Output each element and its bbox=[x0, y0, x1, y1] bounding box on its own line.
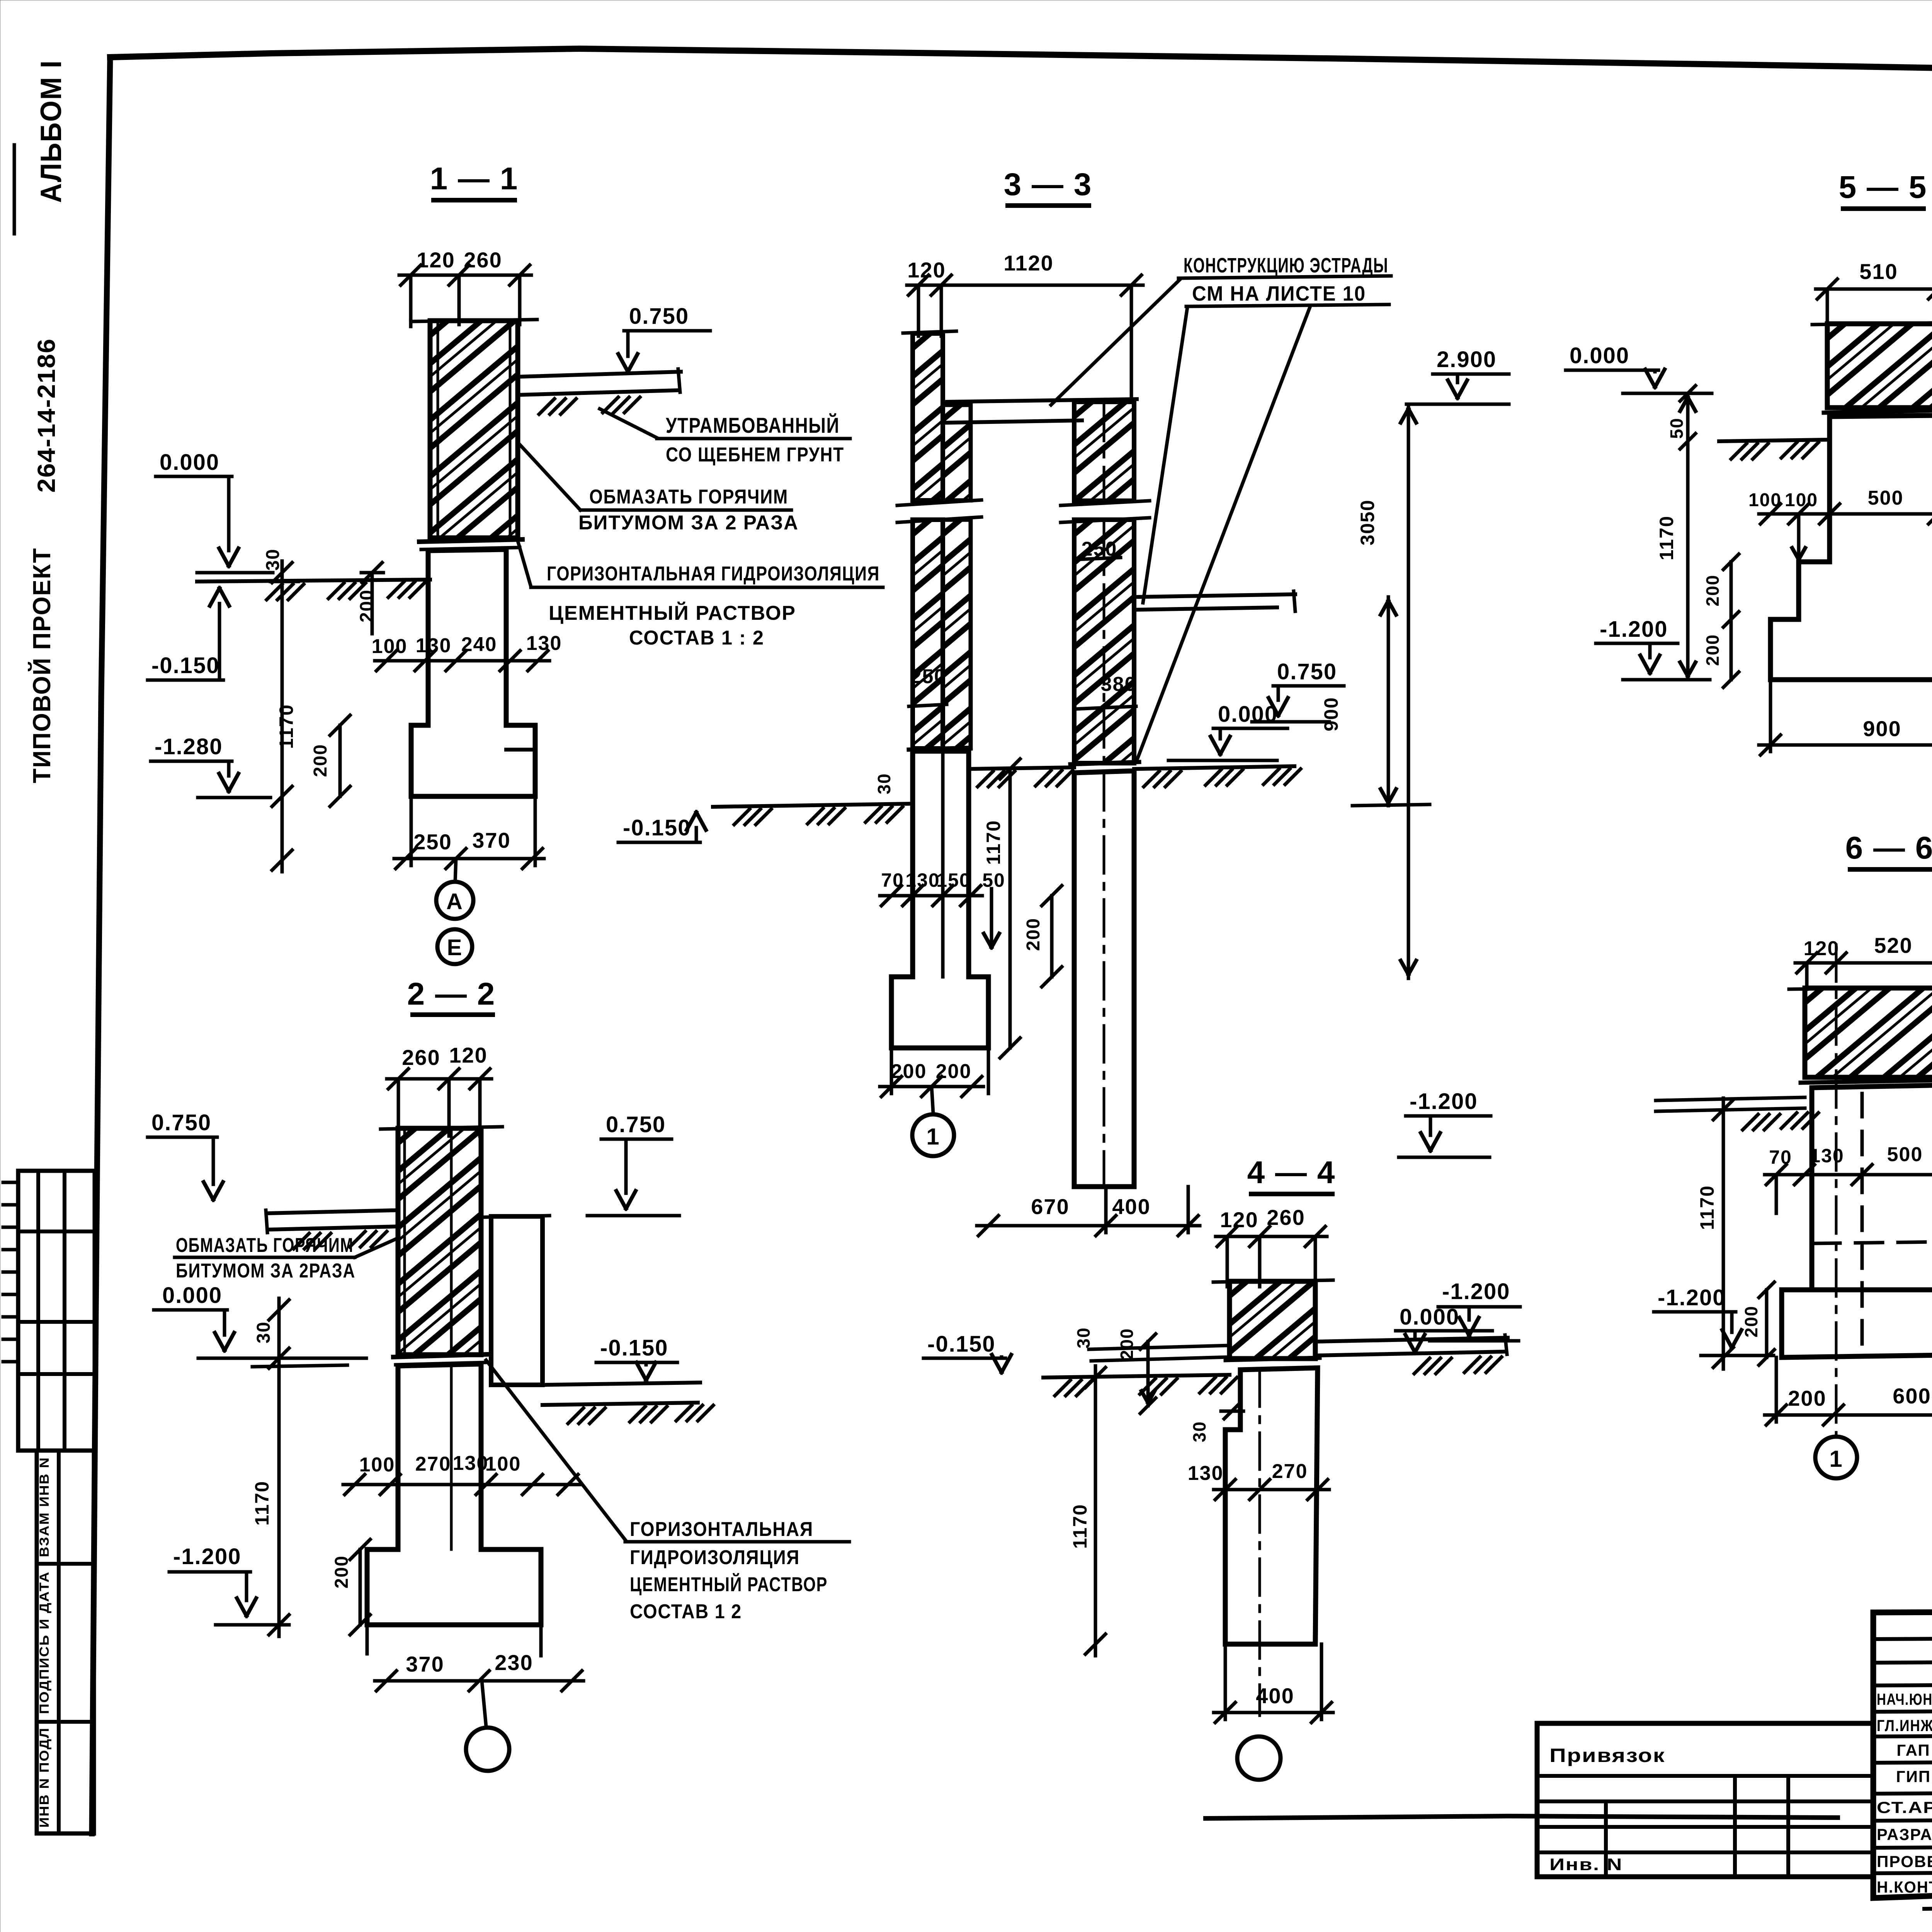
svg-text:4 — 4: 4 — 4 bbox=[1247, 1155, 1336, 1190]
svg-text:1170: 1170 bbox=[1069, 1504, 1091, 1549]
svg-text:120: 120 bbox=[417, 248, 455, 272]
section 5-5 ground lines bbox=[1719, 440, 1827, 441]
svg-text:264-14-2186: 264-14-2186 bbox=[32, 338, 60, 493]
section 3-3 floor slab right 0.750 bbox=[1134, 594, 1295, 597]
section 1-1 note: утрамбованный со щебнем грунт bbox=[600, 409, 657, 438]
svg-text:-1.200: -1.200 bbox=[1658, 1285, 1726, 1310]
svg-text:120: 120 bbox=[449, 1043, 487, 1067]
sheet bottom border bbox=[1206, 1816, 1838, 1818]
section 1-1 ground line left bbox=[197, 580, 430, 582]
svg-text:СТ.АРХ: СТ.АРХ bbox=[1877, 1798, 1932, 1816]
section 2-2 floor slab left bbox=[267, 1210, 398, 1213]
section 1-1 hydro joint bbox=[419, 539, 522, 542]
svg-text:Привязок: Привязок bbox=[1549, 1745, 1665, 1766]
section 1-1 axis bubble A bbox=[436, 882, 473, 919]
svg-text:НАЧ.ЮНИ7: НАЧ.ЮНИ7 bbox=[1877, 1690, 1932, 1708]
section 1-1 note: горизонтальная гидроизоляция bbox=[518, 541, 531, 587]
svg-text:30: 30 bbox=[263, 548, 283, 570]
svg-text:БИТУМОМ ЗА 2РАЗА: БИТУМОМ ЗА 2РАЗА bbox=[176, 1260, 355, 1282]
section 4-4 floor slab right bbox=[1315, 1338, 1508, 1342]
section 2-2 pilaster column right bbox=[491, 1216, 543, 1385]
svg-text:130: 130 bbox=[526, 632, 562, 655]
svg-text:1 — 1: 1 — 1 bbox=[430, 161, 519, 196]
svg-text:РАЗРАБ.: РАЗРАБ. bbox=[1877, 1825, 1932, 1844]
section 2-2 axis bubble bbox=[466, 1728, 509, 1771]
section 3-3 platform slab bbox=[944, 399, 1137, 402]
section 2-2 note: горизонтальная гидроизоляция bbox=[486, 1360, 625, 1540]
section 3-3 ground lines bbox=[969, 767, 1074, 769]
svg-text:0.750: 0.750 bbox=[1277, 659, 1337, 684]
svg-text:380: 380 bbox=[1101, 673, 1137, 696]
svg-text:СОСТАВ 1 : 2: СОСТАВ 1 : 2 bbox=[629, 627, 764, 649]
svg-text:270: 270 bbox=[415, 1453, 451, 1475]
section 4-4 axis line bbox=[1259, 1236, 1261, 1281]
svg-text:БИТУМОМ ЗА 2 РАЗА: БИТУМОМ ЗА 2 РАЗА bbox=[578, 512, 799, 534]
svg-text:670: 670 bbox=[1031, 1194, 1069, 1219]
svg-text:0.750: 0.750 bbox=[606, 1112, 666, 1137]
svg-text:200: 200 bbox=[1788, 1386, 1826, 1410]
svg-text:400: 400 bbox=[1112, 1194, 1150, 1219]
section 5-5 hydro joint bbox=[1824, 410, 1932, 413]
svg-text:0.750: 0.750 bbox=[629, 304, 689, 329]
section 3-3 axis line right pier bbox=[1103, 404, 1105, 498]
section 5-5 foundation stepped pier bbox=[1770, 415, 1932, 680]
svg-text:520: 520 bbox=[1874, 933, 1912, 957]
svg-text:Инв. N: Инв. N bbox=[1549, 1855, 1623, 1874]
svg-text:100: 100 bbox=[372, 635, 408, 658]
svg-text:1170: 1170 bbox=[1656, 515, 1677, 560]
section 6-6 floor slab left bbox=[1656, 1097, 1805, 1100]
title block left rows bbox=[1873, 1684, 1932, 1685]
svg-text:ГОРИЗОНТАЛЬНАЯ ГИДРОИЗОЛЯЦИЯ: ГОРИЗОНТАЛЬНАЯ ГИДРОИЗОЛЯЦИЯ bbox=[547, 563, 880, 585]
svg-text:1170: 1170 bbox=[276, 704, 297, 749]
svg-text:30: 30 bbox=[874, 773, 894, 794]
section 6-6 footing bbox=[1782, 1290, 1932, 1357]
section 6-6 axis bubble 1 bbox=[1815, 1437, 1857, 1478]
section 2-2 axis line bbox=[482, 1681, 486, 1726]
section 2-2 hydro joint bbox=[393, 1354, 488, 1357]
svg-text:ТИПОВОЙ ПРОЕКТ: ТИПОВОЙ ПРОЕКТ bbox=[27, 548, 56, 783]
svg-text:250: 250 bbox=[413, 830, 452, 854]
svg-text:-1.280: -1.280 bbox=[155, 734, 223, 759]
svg-text:120: 120 bbox=[1804, 937, 1840, 960]
svg-text:6 — 6: 6 — 6 bbox=[1845, 830, 1932, 866]
svg-text:-1.200: -1.200 bbox=[173, 1544, 241, 1569]
svg-text:200: 200 bbox=[1117, 1328, 1137, 1360]
section 6-6 hydro joint bbox=[1801, 1080, 1932, 1083]
svg-text:ПОДПИСЬ И ДАТА: ПОДПИСЬ И ДАТА bbox=[37, 1571, 52, 1714]
svg-text:АЛЬБОМ I: АЛЬБОМ I bbox=[35, 60, 68, 203]
svg-text:260: 260 bbox=[402, 1045, 440, 1070]
section 2-2 lower floor right bbox=[543, 1383, 700, 1385]
svg-text:-1.200: -1.200 bbox=[1442, 1279, 1510, 1304]
margin tick line bbox=[13, 145, 16, 234]
svg-text:ГЛ.ИНЖ.М: ГЛ.ИНЖ.М bbox=[1877, 1716, 1932, 1735]
svg-text:200: 200 bbox=[357, 589, 377, 622]
svg-text:1: 1 bbox=[1829, 1446, 1843, 1472]
svg-text:370: 370 bbox=[406, 1652, 444, 1676]
section 3-3 left wall hydro joint bbox=[909, 748, 971, 750]
svg-text:Н.КОНТР: Н.КОНТР bbox=[1877, 1878, 1932, 1896]
svg-text:КОНСТРУКЦИЮ ЭСТРАДЫ: КОНСТРУКЦИЮ ЭСТРАДЫ bbox=[1184, 254, 1388, 277]
svg-text:370: 370 bbox=[472, 828, 510, 852]
svg-text:250: 250 bbox=[910, 665, 946, 688]
svg-text:200: 200 bbox=[1702, 575, 1723, 607]
section 3-3 wall break marks bbox=[897, 500, 981, 505]
svg-text:0.750: 0.750 bbox=[151, 1110, 211, 1135]
svg-text:Е: Е bbox=[447, 935, 463, 960]
svg-text:510: 510 bbox=[1859, 259, 1898, 284]
svg-text:3 — 3: 3 — 3 bbox=[1004, 167, 1092, 202]
svg-text:270: 270 bbox=[1272, 1460, 1308, 1483]
section 4-4 axis bubble bbox=[1237, 1736, 1281, 1780]
svg-text:1170: 1170 bbox=[983, 820, 1004, 865]
svg-text:0.000: 0.000 bbox=[1570, 343, 1629, 368]
privyazok box bbox=[1537, 1723, 1873, 1877]
svg-text:200: 200 bbox=[1702, 634, 1723, 666]
svg-text:200: 200 bbox=[1023, 918, 1044, 951]
svg-text:3050: 3050 bbox=[1357, 499, 1378, 545]
svg-text:0.000: 0.000 bbox=[160, 450, 219, 475]
section 3-3 right pier bbox=[1074, 771, 1134, 1187]
svg-text:СОСТАВ 1 2: СОСТАВ 1 2 bbox=[630, 1600, 742, 1623]
svg-text:ОБМАЗАТЬ ГОРЯЧИМ: ОБМАЗАТЬ ГОРЯЧИМ bbox=[589, 486, 788, 508]
section 3-3 left pier bbox=[891, 751, 988, 1048]
svg-text:130: 130 bbox=[453, 1452, 489, 1475]
section 3-3 axis bubble 1 bbox=[912, 1114, 954, 1156]
svg-text:-0.150: -0.150 bbox=[927, 1332, 995, 1357]
section 4-4 floor slab left bbox=[1089, 1345, 1230, 1349]
section 6-6 pier bbox=[1812, 1085, 1932, 1290]
svg-text:УТРАМБОВАННЫЙ: УТРАМБОВАННЫЙ bbox=[666, 413, 840, 437]
section 1-1 note: обмазать горячим битумом за 2 раза bbox=[518, 442, 580, 510]
title block frame bbox=[1873, 1610, 1932, 1898]
svg-text:1: 1 bbox=[926, 1124, 940, 1150]
section 3-3 ground line left bbox=[713, 804, 913, 807]
left sidebar lower stamp table bbox=[37, 1451, 94, 1833]
svg-text:ВЗАМ ИНВ N: ВЗАМ ИНВ N bbox=[37, 1457, 52, 1557]
svg-text:5 — 5: 5 — 5 bbox=[1839, 170, 1927, 205]
section 6-6 axis line bbox=[1835, 945, 1838, 1435]
section 2-2 foundation pier bbox=[367, 1364, 541, 1625]
svg-text:СО ЩЕБНЕМ ГРУНТ: СО ЩЕБНЕМ ГРУНТ bbox=[666, 444, 844, 466]
svg-text:30: 30 bbox=[253, 1321, 274, 1343]
section 3-3 axis line to bubble bbox=[932, 1087, 933, 1113]
svg-text:30: 30 bbox=[1073, 1327, 1094, 1348]
svg-text:ГАП: ГАП bbox=[1896, 1741, 1930, 1759]
section 3-3 right wall hydro joint bbox=[1070, 762, 1139, 764]
svg-text:-1.200: -1.200 bbox=[1600, 617, 1668, 642]
left sidebar upper grid bbox=[18, 1171, 95, 1451]
svg-text:900: 900 bbox=[1320, 697, 1342, 731]
svg-text:А: А bbox=[446, 889, 463, 914]
section 1-1 foundation pier bbox=[411, 549, 535, 796]
svg-text:2.900: 2.900 bbox=[1437, 347, 1497, 372]
svg-text:120: 120 bbox=[1220, 1207, 1258, 1232]
svg-text:ГОРИЗОНТАЛЬНАЯ: ГОРИЗОНТАЛЬНАЯ bbox=[630, 1518, 813, 1541]
section 4-4 ground line left bbox=[1043, 1375, 1230, 1378]
svg-text:2 — 2: 2 — 2 bbox=[407, 976, 496, 1012]
svg-text:50: 50 bbox=[982, 869, 1005, 891]
svg-text:100: 100 bbox=[1785, 490, 1818, 510]
svg-text:-0.150: -0.150 bbox=[623, 815, 691, 840]
sheet top border bbox=[110, 49, 1932, 81]
sheet left border bbox=[92, 57, 110, 1833]
svg-text:СМ НА ЛИСТЕ 10: СМ НА ЛИСТЕ 10 bbox=[1192, 282, 1366, 305]
svg-text:600: 600 bbox=[1893, 1384, 1931, 1408]
svg-text:200: 200 bbox=[310, 744, 331, 777]
svg-text:ПРОВЕР: ПРОВЕР bbox=[1877, 1852, 1932, 1871]
svg-text:50: 50 bbox=[1667, 417, 1687, 439]
svg-text:-0.150: -0.150 bbox=[600, 1335, 668, 1361]
svg-text:ЦЕМЕНТНЫЙ РАСТВОР: ЦЕМЕНТНЫЙ РАСТВОР bbox=[630, 1573, 828, 1596]
svg-text:260: 260 bbox=[1267, 1205, 1305, 1230]
section 1-1 axis line bbox=[455, 859, 456, 882]
svg-text:900: 900 bbox=[1863, 716, 1901, 741]
svg-text:-0.150: -0.150 bbox=[151, 653, 219, 678]
svg-text:ЦЕМЕНТНЫЙ РАСТВОР: ЦЕМЕНТНЫЙ РАСТВОР bbox=[549, 602, 796, 624]
svg-text:ГИП: ГИП bbox=[1896, 1767, 1931, 1786]
svg-text:400: 400 bbox=[1256, 1684, 1294, 1708]
svg-text:1170: 1170 bbox=[1696, 1185, 1718, 1230]
svg-text:0.000: 0.000 bbox=[1218, 702, 1278, 727]
svg-text:500: 500 bbox=[1887, 1143, 1923, 1166]
svg-text:150: 150 bbox=[936, 869, 971, 891]
svg-text:-1.200: -1.200 bbox=[1410, 1089, 1478, 1114]
section 4-4 foundation pier bbox=[1225, 1368, 1318, 1644]
svg-text:500: 500 bbox=[1868, 487, 1904, 509]
svg-text:70: 70 bbox=[1769, 1146, 1792, 1168]
svg-text:30: 30 bbox=[1189, 1421, 1209, 1442]
svg-text:130: 130 bbox=[1188, 1462, 1224, 1485]
svg-text:260: 260 bbox=[464, 248, 502, 272]
svg-text:ОБМАЗАТЬ ГОРЯЧИМ: ОБМАЗАТЬ ГОРЯЧИМ bbox=[176, 1234, 354, 1257]
section 1-1 axis bubble Е bbox=[437, 929, 472, 964]
svg-text:1120: 1120 bbox=[1003, 251, 1054, 275]
svg-text:200: 200 bbox=[1741, 1306, 1761, 1338]
svg-text:230: 230 bbox=[495, 1650, 533, 1675]
svg-text:0.000: 0.000 bbox=[162, 1283, 222, 1308]
svg-text:100: 100 bbox=[485, 1453, 521, 1475]
section 4-4 hydro joint bbox=[1226, 1358, 1320, 1360]
svg-text:ГИДРОИЗОЛЯЦИЯ: ГИДРОИЗОЛЯЦИЯ bbox=[630, 1546, 800, 1569]
section 1-1 floor slab right bbox=[518, 372, 681, 377]
svg-text:ИНВ N ПОДЛ: ИНВ N ПОДЛ bbox=[37, 1727, 52, 1828]
svg-text:1170: 1170 bbox=[251, 1481, 273, 1526]
